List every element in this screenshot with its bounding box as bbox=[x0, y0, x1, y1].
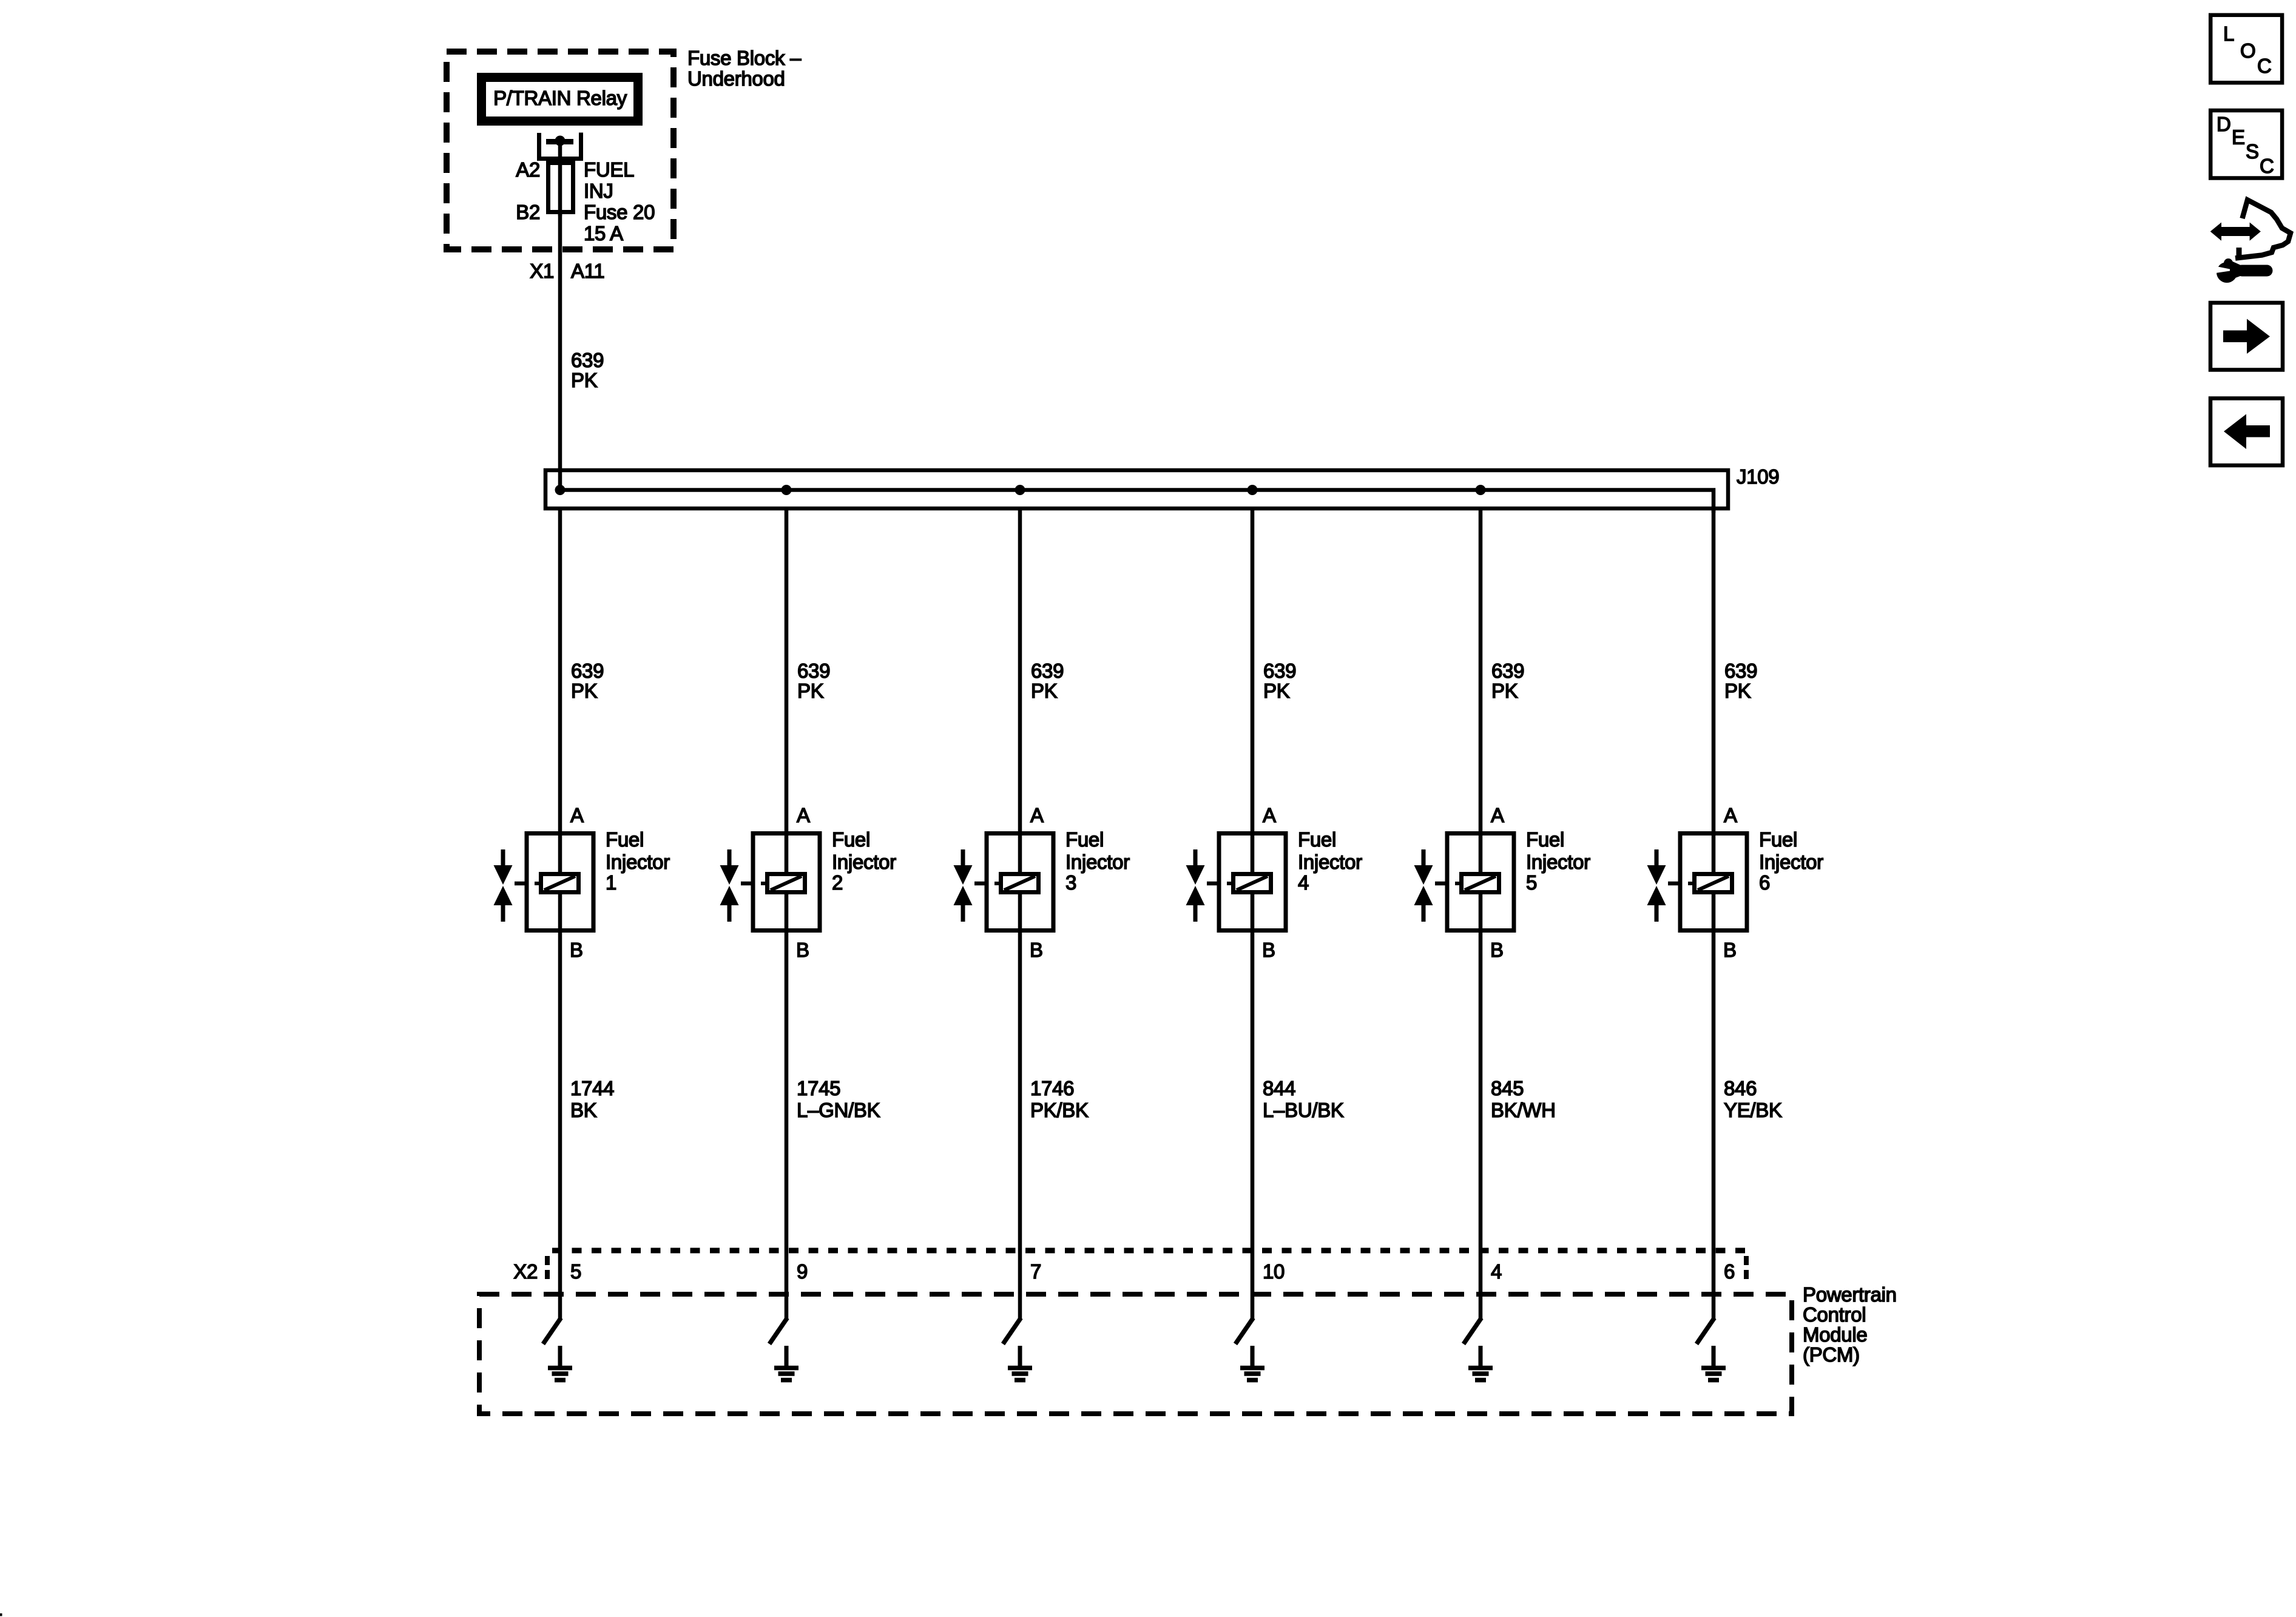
svg-text:A: A bbox=[1491, 804, 1504, 826]
wire: 639 PK branch to fuel injector 6 pin A bbox=[1712, 508, 1716, 833]
svg-text:L–BU/BK: L–BU/BK bbox=[1263, 1099, 1344, 1121]
svg-text:P/TRAIN Relay: P/TRAIN Relay bbox=[493, 87, 627, 109]
fuse value label: FUEL INJ Fuse 20 15 A bbox=[584, 158, 655, 245]
svg-text:Injector: Injector bbox=[1298, 851, 1362, 873]
svg-text:A: A bbox=[570, 804, 584, 826]
pin label 7 of PCM connector X2 bbox=[1030, 1260, 1041, 1283]
pin label B of injector 2 bbox=[796, 939, 809, 961]
fuel injector 5 component box bbox=[1447, 833, 1514, 933]
svg-text:Fuel: Fuel bbox=[1526, 828, 1564, 851]
pin label B of injector 1 bbox=[570, 939, 583, 961]
injector 3 valve nozzle symbol bbox=[954, 849, 985, 922]
driver switch for injector 1 inside PCM bbox=[543, 1318, 561, 1344]
svg-text:3: 3 bbox=[1065, 871, 1076, 894]
injector 1 solenoid coil bbox=[535, 874, 579, 893]
label: Fuel Injector 4 bbox=[1298, 828, 1362, 894]
svg-text:B: B bbox=[796, 939, 809, 961]
ground symbol for injector 2 driver bbox=[774, 1346, 799, 1380]
fuse F1: FUEL INJ Fuse 20 15 A bbox=[549, 161, 573, 216]
svg-text:Fuel: Fuel bbox=[1759, 828, 1797, 851]
junction dot at relay output bbox=[555, 136, 566, 146]
svg-text:INJ: INJ bbox=[584, 180, 613, 202]
fuse block - underhood: dashed boundary box bbox=[447, 52, 674, 249]
wire: 845 BK/WH from injector 5 pin B to PCM pin 4 bbox=[1479, 933, 1483, 1320]
svg-text:639: 639 bbox=[1263, 660, 1296, 682]
pin label 6 of PCM connector X2 bbox=[1724, 1260, 1735, 1283]
injector 6 valve nozzle symbol bbox=[1647, 849, 1679, 922]
svg-text:15 A: 15 A bbox=[584, 222, 623, 245]
icon: hand outline bbox=[2235, 200, 2291, 258]
icon: DESC box bbox=[2210, 110, 2282, 178]
svg-text:FUEL: FUEL bbox=[584, 158, 634, 181]
wire label: 844 L–BU/BK bbox=[1263, 1077, 1344, 1121]
svg-text:PK: PK bbox=[571, 680, 598, 702]
wire: bus inside J109 bbox=[560, 490, 1714, 513]
label: Fuel Injector 5 bbox=[1526, 828, 1590, 894]
injector 2 solenoid coil bbox=[761, 874, 805, 893]
svg-text:639: 639 bbox=[571, 660, 604, 682]
driver switch for injector 2 inside PCM bbox=[769, 1318, 788, 1344]
icon: wrench bbox=[2213, 258, 2267, 283]
svg-text:5: 5 bbox=[570, 1260, 581, 1283]
svg-text:Injector: Injector bbox=[606, 851, 670, 873]
wire label: 639 PK (branch 6) bbox=[1724, 660, 1757, 702]
wire: 1744 BK from injector 1 pin B to PCM pin 5 bbox=[558, 933, 562, 1320]
connector X2 right tick bbox=[1744, 1256, 1749, 1281]
svg-text:Powertrain: Powertrain bbox=[1803, 1283, 1897, 1306]
pin label B of injector 3 bbox=[1030, 939, 1043, 961]
ground symbol for injector 6 driver bbox=[1701, 1346, 1726, 1380]
powertrain control module (PCM) dashed box bbox=[479, 1294, 1792, 1414]
pin label A of injector 1 bbox=[570, 804, 584, 826]
svg-text:Fuel: Fuel bbox=[606, 828, 644, 851]
svg-text:Fuel: Fuel bbox=[832, 828, 870, 851]
wire: 639 PK branch to fuel injector 4 pin A bbox=[1251, 508, 1255, 833]
pin label B of injector 4 bbox=[1262, 939, 1275, 961]
splice J109 outline box bbox=[545, 470, 1728, 508]
label: Fuel Injector 6 bbox=[1759, 828, 1823, 894]
svg-text:B2: B2 bbox=[516, 201, 540, 223]
wire label: 639 PK (branch 4) bbox=[1263, 660, 1296, 702]
wire: 639 PK branch to fuel injector 2 pin A bbox=[785, 508, 789, 833]
svg-text:PK: PK bbox=[797, 680, 824, 702]
fuel injector 2 component box bbox=[753, 833, 820, 933]
svg-text:X2: X2 bbox=[513, 1260, 538, 1283]
injector 2 valve nozzle symbol bbox=[720, 849, 752, 922]
svg-text:1745: 1745 bbox=[797, 1077, 840, 1099]
fuel injector 3 component box bbox=[987, 833, 1053, 933]
svg-text:J109: J109 bbox=[1737, 465, 1779, 488]
svg-text:Injector: Injector bbox=[1065, 851, 1130, 873]
injector 5 solenoid coil bbox=[1455, 874, 1499, 893]
svg-text:A: A bbox=[1263, 804, 1276, 826]
relay K1: P/TRAIN Relay box bbox=[482, 78, 638, 121]
wire label: 639 PK (branch 2) bbox=[797, 660, 830, 702]
svg-text:A: A bbox=[1724, 804, 1737, 826]
wire label: 1744 BK bbox=[570, 1077, 614, 1121]
wire label: 1745 L–GN/BK bbox=[797, 1077, 880, 1121]
svg-text:PK: PK bbox=[1031, 680, 1058, 702]
label: Fuse Block - Underhood bbox=[687, 47, 802, 90]
wire: relay output to fuse (inside fuse block) bbox=[558, 141, 562, 164]
fuel injector 1 component box bbox=[527, 833, 593, 933]
wire: 639 PK from fuse block to splice J109 bbox=[558, 303, 562, 491]
svg-text:6: 6 bbox=[1724, 1260, 1735, 1283]
svg-text:B: B bbox=[1030, 939, 1043, 961]
svg-text:Module: Module bbox=[1803, 1323, 1867, 1346]
pin label A of injector 2 bbox=[797, 804, 810, 826]
svg-text:5: 5 bbox=[1526, 871, 1537, 894]
svg-text:Fuse Block –: Fuse Block – bbox=[687, 47, 802, 69]
fuel injector 4 component box bbox=[1219, 833, 1286, 933]
injector 3 solenoid coil bbox=[994, 874, 1039, 893]
svg-text:639: 639 bbox=[1031, 660, 1064, 682]
svg-text:Injector: Injector bbox=[1526, 851, 1590, 873]
icon: LOC box bbox=[2210, 15, 2282, 83]
svg-text:6: 6 bbox=[1759, 871, 1770, 894]
svg-text:O: O bbox=[2240, 39, 2255, 62]
pin label 9 of PCM connector X2 bbox=[797, 1260, 808, 1283]
label: Fuel Injector 1 bbox=[606, 828, 670, 894]
connector X2 dotted line at PCM bbox=[545, 1248, 1745, 1254]
svg-text:Injector: Injector bbox=[1759, 851, 1823, 873]
pin label A of injector 3 bbox=[1030, 804, 1044, 826]
wire label: 639 PK (branch 5) bbox=[1491, 660, 1524, 702]
svg-text:639: 639 bbox=[1724, 660, 1757, 682]
wire: 639 PK branch to fuel injector 5 pin A bbox=[1479, 508, 1483, 833]
svg-text:D: D bbox=[2217, 113, 2231, 135]
icon: forward arrow box bbox=[2210, 303, 2283, 370]
svg-text:PK: PK bbox=[1724, 680, 1751, 702]
label: Fuel Injector 2 bbox=[832, 828, 896, 894]
pin label 10 of PCM connector X2 bbox=[1263, 1260, 1285, 1283]
ground symbol for injector 1 driver bbox=[548, 1346, 572, 1380]
connector X2 left tick bbox=[545, 1256, 550, 1281]
wire: 844 L–BU/BK from injector 4 pin B to PCM pin 10 bbox=[1251, 933, 1255, 1320]
wire: 639 PK branch to fuel injector 3 pin A bbox=[1018, 508, 1022, 833]
svg-text:PK/BK: PK/BK bbox=[1030, 1099, 1089, 1121]
svg-text:Fuel: Fuel bbox=[1298, 828, 1336, 851]
wire: 1745 L–GN/BK from injector 2 pin B to PCM pin 9 bbox=[785, 933, 789, 1320]
driver switch for injector 3 inside PCM bbox=[1003, 1318, 1021, 1344]
injector 4 valve nozzle symbol bbox=[1186, 849, 1218, 922]
svg-text:PK: PK bbox=[571, 369, 598, 391]
ground symbol for injector 5 driver bbox=[1468, 1346, 1493, 1380]
wire: fuse B2 down through connector X1 pin A11 bbox=[558, 214, 562, 303]
junction dot on J109 at branch 5 bbox=[1476, 485, 1486, 495]
svg-text:B: B bbox=[1723, 939, 1737, 961]
pin label A of injector 6 bbox=[1724, 804, 1737, 826]
svg-text:B: B bbox=[1262, 939, 1275, 961]
svg-text:9: 9 bbox=[797, 1260, 808, 1283]
svg-text:A: A bbox=[797, 804, 810, 826]
ground symbol for injector 4 driver bbox=[1240, 1346, 1264, 1380]
svg-text:PK: PK bbox=[1491, 680, 1518, 702]
svg-text:Control: Control bbox=[1803, 1303, 1866, 1326]
svg-text:L–GN/BK: L–GN/BK bbox=[797, 1099, 880, 1121]
label: Powertrain Control Module (PCM) bbox=[1803, 1283, 1897, 1366]
pin label 5 of PCM connector X2 bbox=[570, 1260, 581, 1283]
relay output terminal bracket bbox=[539, 133, 581, 159]
wire label: 639 PK (feed) bbox=[571, 349, 604, 391]
svg-text:(PCM): (PCM) bbox=[1803, 1343, 1860, 1366]
svg-text:846: 846 bbox=[1724, 1077, 1757, 1099]
svg-text:B: B bbox=[1490, 939, 1504, 961]
svg-text:Fuel: Fuel bbox=[1065, 828, 1104, 851]
svg-text:X1: X1 bbox=[530, 260, 554, 282]
pin label 4 of PCM connector X2 bbox=[1491, 1260, 1502, 1283]
svg-text:639: 639 bbox=[571, 349, 604, 371]
svg-text:10: 10 bbox=[1263, 1260, 1285, 1283]
svg-text:Underhood: Underhood bbox=[687, 67, 785, 90]
driver switch for injector 6 inside PCM bbox=[1697, 1318, 1715, 1344]
svg-text:BK/WH: BK/WH bbox=[1491, 1099, 1556, 1121]
svg-text:A11: A11 bbox=[571, 260, 604, 282]
svg-text:C: C bbox=[2257, 55, 2272, 77]
wire label: 639 PK (branch 1) bbox=[571, 660, 604, 702]
svg-text:C: C bbox=[2260, 155, 2274, 177]
junction dot on J109 at branch 1 bbox=[555, 485, 566, 495]
svg-text:BK: BK bbox=[570, 1099, 597, 1121]
junction dot on J109 at branch 4 bbox=[1248, 485, 1258, 495]
pin label B of injector 6 bbox=[1723, 939, 1737, 961]
svg-text:Fuse 20: Fuse 20 bbox=[584, 201, 655, 223]
svg-text:1744: 1744 bbox=[570, 1077, 614, 1099]
svg-text:1746: 1746 bbox=[1030, 1077, 1074, 1099]
svg-text:845: 845 bbox=[1491, 1077, 1524, 1099]
svg-text:E: E bbox=[2232, 126, 2245, 149]
wire: 846 YE/BK from injector 6 pin B to PCM pin 6 bbox=[1712, 933, 1716, 1320]
junction dot on J109 at branch 2 bbox=[782, 485, 792, 495]
svg-text:4: 4 bbox=[1298, 871, 1309, 894]
wire label: 1746 PK/BK bbox=[1030, 1077, 1089, 1121]
svg-text:PK: PK bbox=[1263, 680, 1290, 702]
page corner mark bbox=[0, 1613, 2, 1616]
svg-text:B: B bbox=[570, 939, 583, 961]
injector 1 valve nozzle symbol bbox=[494, 849, 525, 922]
injector 5 valve nozzle symbol bbox=[1414, 849, 1446, 922]
svg-text:S: S bbox=[2246, 140, 2259, 163]
fuel injector 6 component box bbox=[1680, 833, 1747, 933]
wire: 1746 PK/BK from injector 3 pin B to PCM pin 7 bbox=[1018, 933, 1022, 1320]
driver switch for injector 5 inside PCM bbox=[1464, 1318, 1482, 1344]
svg-text:L: L bbox=[2223, 22, 2234, 45]
pin label A of injector 5 bbox=[1491, 804, 1504, 826]
svg-text:844: 844 bbox=[1263, 1077, 1295, 1099]
label: Fuel Injector 3 bbox=[1065, 828, 1130, 894]
svg-text:639: 639 bbox=[797, 660, 830, 682]
wire label: 846 YE/BK bbox=[1724, 1077, 1782, 1121]
wire label: 639 PK (branch 3) bbox=[1031, 660, 1064, 702]
icon: double-headed arrow bbox=[2210, 223, 2261, 241]
pin label B of injector 5 bbox=[1490, 939, 1504, 961]
svg-text:Injector: Injector bbox=[832, 851, 896, 873]
svg-text:639: 639 bbox=[1491, 660, 1524, 682]
svg-text:A2: A2 bbox=[516, 158, 540, 181]
pin label A of injector 4 bbox=[1263, 804, 1276, 826]
svg-text:A: A bbox=[1030, 804, 1044, 826]
svg-text:1: 1 bbox=[606, 871, 616, 894]
svg-text:4: 4 bbox=[1491, 1260, 1502, 1283]
svg-text:2: 2 bbox=[832, 871, 843, 894]
wire: 639 PK branch to fuel injector 1 pin A bbox=[558, 508, 562, 833]
driver switch for injector 4 inside PCM bbox=[1235, 1318, 1254, 1344]
icon: back arrow box bbox=[2210, 399, 2283, 466]
wire label: 845 BK/WH bbox=[1491, 1077, 1556, 1121]
svg-text:7: 7 bbox=[1030, 1260, 1041, 1283]
svg-text:YE/BK: YE/BK bbox=[1724, 1099, 1782, 1121]
junction dot on J109 at branch 3 bbox=[1015, 485, 1025, 495]
injector 6 solenoid coil bbox=[1688, 874, 1732, 893]
ground symbol for injector 3 driver bbox=[1008, 1346, 1032, 1380]
injector 4 solenoid coil bbox=[1227, 874, 1271, 893]
